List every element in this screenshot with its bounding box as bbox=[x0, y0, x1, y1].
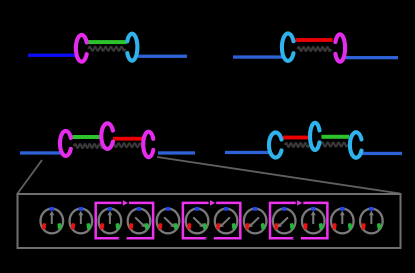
clock dial 11 (up hand) bbox=[331, 207, 354, 233]
clock dial 6 (green hand) bbox=[186, 207, 209, 233]
red linker bar bbox=[296, 38, 333, 42]
clock dial 5 (green hand) bbox=[157, 207, 180, 233]
cyan ring 1 bbox=[269, 132, 282, 157]
squiggle tether bbox=[298, 47, 332, 51]
clock dial 7 (red hand) bbox=[215, 207, 238, 233]
cyan ring 3 bbox=[350, 132, 362, 158]
cyan ring (open left) bbox=[127, 34, 137, 61]
clock dial 3 (up hand) bbox=[99, 207, 122, 233]
squiggle tether 1 bbox=[285, 143, 309, 147]
DNA line left (bottom-right panel) bbox=[225, 151, 272, 154]
green linker bar bbox=[73, 135, 103, 139]
clock dial 9 (red hand) bbox=[273, 207, 296, 233]
green linker bar bbox=[87, 40, 127, 44]
squiggle tether bbox=[89, 47, 126, 51]
DNA line right (top-right panel) bbox=[345, 56, 398, 59]
squiggle tether 2 bbox=[112, 143, 144, 147]
clock dial 1 (up hand) bbox=[41, 207, 64, 233]
magnified view box bbox=[18, 194, 401, 248]
exchange box around dials 3-4 bbox=[96, 203, 124, 238]
squiggle tether 2 bbox=[321, 143, 348, 147]
clock dial 2 (up hand) bbox=[70, 207, 93, 233]
clock dial 4 (green hand) bbox=[128, 207, 151, 233]
magenta ring (open left) bbox=[335, 34, 345, 61]
exchange box around dials 6-7 bbox=[183, 203, 211, 238]
magenta ring 1 bbox=[60, 131, 71, 156]
clock dial 10 (up hand) bbox=[302, 207, 325, 233]
clock dial 12 (up hand) bbox=[360, 207, 383, 233]
green linker bar bbox=[322, 135, 350, 139]
magenta ring (open right) bbox=[76, 35, 87, 62]
cyan ring 2 (raised) bbox=[310, 123, 319, 150]
clock dial 8 (red hand) bbox=[244, 207, 267, 233]
cyan ring (open right) bbox=[282, 34, 294, 61]
squiggle tether 1 bbox=[74, 144, 103, 148]
DNA line right (bottom-left panel) bbox=[158, 151, 195, 154]
DNA line left (top-right panel) bbox=[233, 55, 282, 58]
DNA line left (top-left panel) bbox=[28, 54, 77, 57]
zoom indicator line right bbox=[157, 157, 400, 194]
DNA line right (bottom-right panel) bbox=[361, 152, 402, 155]
magenta ring 2 (raised) bbox=[101, 123, 113, 149]
exchange box around dials 9-10 bbox=[270, 203, 298, 238]
red linker bar bbox=[283, 136, 309, 140]
zoom indicator line left bbox=[18, 160, 43, 194]
DNA line left (bottom-left panel) bbox=[20, 151, 63, 154]
DNA line right (top-left panel) bbox=[138, 55, 187, 58]
red linker bar bbox=[113, 137, 144, 141]
magenta ring 3 bbox=[143, 132, 153, 158]
